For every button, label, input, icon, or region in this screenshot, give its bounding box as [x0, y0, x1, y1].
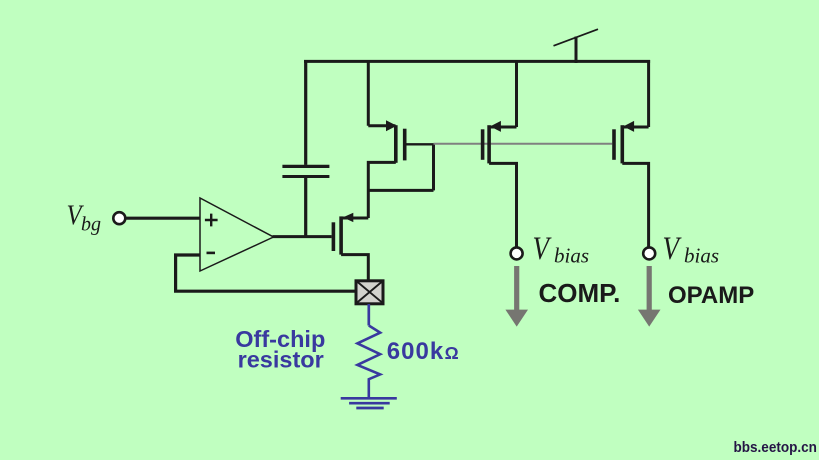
label 600k ohm (blue) — [387, 338, 459, 365]
transistor M2 (COMP bias PMOS) — [483, 60, 517, 248]
svg-text:bias: bias — [684, 244, 719, 268]
resistor R1 600k (blue) — [357, 326, 380, 398]
terminal Vbg circle — [113, 212, 125, 224]
transistor M3 (OPAMP bias PMOS) — [614, 60, 649, 248]
terminal circle Vbias OPAMP — [643, 247, 655, 259]
wire op-amp output to M0 gate — [273, 235, 332, 238]
watermark bbs.eetop.cn — [734, 438, 817, 455]
transistor M0 (PMOS driven by op-amp) — [333, 213, 368, 280]
label Vbias COMP — [533, 229, 590, 267]
arrow to OPAMP (gray) — [638, 266, 661, 327]
svg-text:resistor: resistor — [238, 347, 324, 373]
wire top supply rail — [304, 60, 650, 63]
arrow to COMP (gray) — [505, 266, 528, 327]
wire op-amp inverting feedback — [176, 255, 356, 291]
svg-text:Ω: Ω — [445, 343, 459, 363]
terminal circle Vbias COMP — [511, 247, 523, 259]
op-amp U1 — [200, 198, 274, 271]
wire Vbg to op-amp + input — [127, 217, 201, 220]
label OPAMP — [668, 282, 754, 309]
transistor M1 (diode-connected PMOS mirror master) — [368, 60, 433, 218]
wire pad to resistor (blue) — [367, 304, 370, 326]
svg-text:bg: bg — [81, 214, 101, 236]
label Off-chip resistor (blue) — [235, 326, 325, 373]
svg-text:OPAMP: OPAMP — [668, 282, 754, 309]
bond pad (off-chip connection box) — [356, 281, 384, 304]
supply stub with slash (VDD) — [554, 29, 599, 63]
svg-text:bbs.eetop.cn: bbs.eetop.cn — [734, 438, 817, 455]
svg-text:V: V — [663, 229, 683, 266]
capacitor C1 — [282, 60, 329, 238]
gate bus wire (gray) — [434, 143, 613, 145]
label COMP. — [539, 278, 621, 308]
ground (blue) — [341, 398, 397, 408]
svg-text:bias: bias — [554, 244, 589, 268]
svg-text:600k: 600k — [387, 338, 444, 365]
svg-text:V: V — [533, 229, 553, 266]
svg-text:COMP.: COMP. — [539, 278, 621, 308]
label Vbg — [67, 199, 102, 236]
label Vbias OPAMP — [663, 229, 720, 267]
